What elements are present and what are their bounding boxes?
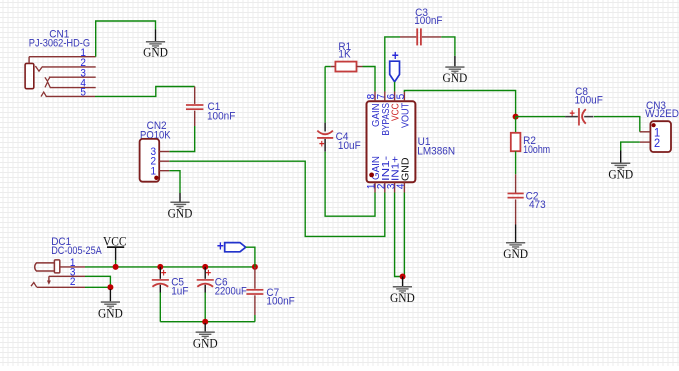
svg-text:2: 2 [70, 275, 76, 288]
svg-text:LM386N: LM386N [417, 145, 455, 158]
svg-text:GND: GND [193, 336, 218, 351]
svg-text:100nF: 100nF [414, 14, 443, 27]
svg-text:2: 2 [654, 137, 660, 151]
svg-text:100uF: 100uF [575, 94, 604, 107]
svg-text:1: 1 [151, 165, 157, 178]
svg-text:10ohm: 10ohm [523, 144, 550, 157]
svg-text:+: + [206, 268, 212, 280]
svg-text:100nF: 100nF [207, 110, 236, 123]
svg-text:473: 473 [529, 199, 546, 212]
svg-text:GND: GND [443, 71, 468, 86]
svg-text:100nF: 100nF [266, 295, 295, 308]
svg-text:WJ2EDG: WJ2EDG [645, 108, 679, 121]
svg-text:+: + [319, 139, 325, 151]
svg-text:GND: GND [98, 306, 123, 321]
svg-text:4: 4 [395, 183, 408, 189]
svg-text:DC-005-25A: DC-005-25A [51, 245, 102, 258]
svg-text:GND: GND [168, 206, 193, 221]
svg-text:+: + [161, 268, 167, 280]
svg-text:GND: GND [400, 158, 412, 182]
svg-text:5: 5 [395, 94, 408, 100]
svg-text:2200uF: 2200uF [215, 285, 247, 298]
svg-text:+: + [569, 108, 575, 120]
svg-text:VOUT: VOUT [400, 103, 412, 128]
svg-text:1uF: 1uF [171, 285, 189, 298]
svg-text:GND: GND [390, 290, 415, 305]
svg-text:5: 5 [80, 86, 86, 99]
svg-text:GND: GND [608, 167, 633, 182]
svg-text:+: + [217, 238, 224, 254]
svg-text:1K: 1K [338, 48, 350, 61]
svg-text:10uF: 10uF [338, 140, 361, 153]
svg-text:GND: GND [503, 246, 528, 261]
svg-text:GND: GND [143, 45, 168, 60]
